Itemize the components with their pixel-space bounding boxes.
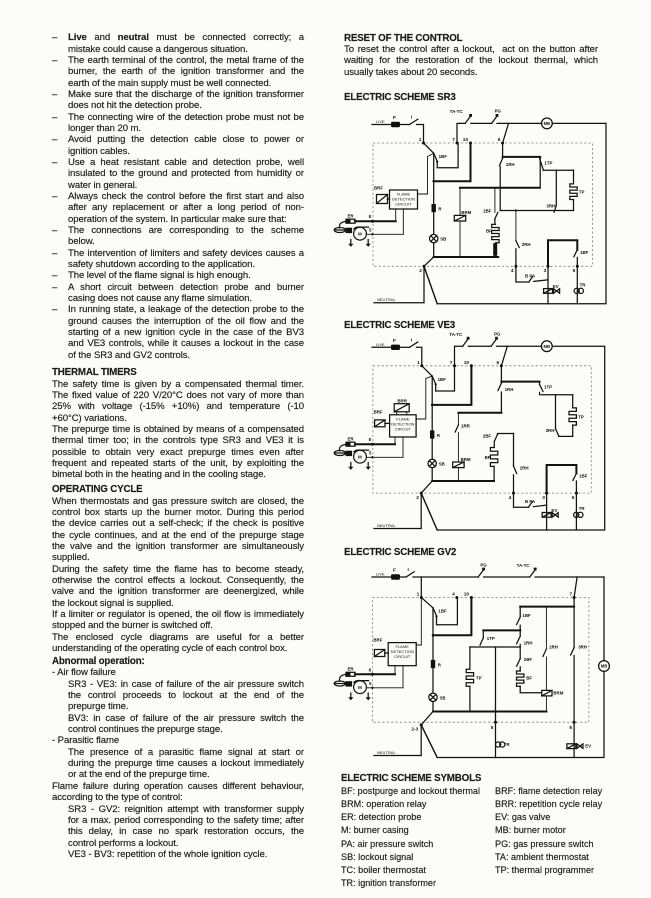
- svg-text:4: 4: [452, 592, 455, 598]
- svg-text:I: I: [408, 567, 410, 573]
- svg-text:2BF: 2BF: [483, 434, 492, 439]
- svg-text:BRM: BRM: [553, 691, 563, 696]
- svg-text:F: F: [393, 115, 396, 121]
- svg-text:6: 6: [498, 137, 501, 143]
- svg-text:TR: TR: [579, 506, 586, 511]
- svg-text:TA-TC: TA-TC: [449, 332, 463, 337]
- svg-text:1TP: 1TP: [544, 160, 552, 165]
- svg-text:3RH: 3RH: [578, 645, 587, 650]
- svg-text:BRR: BRR: [397, 399, 407, 404]
- svg-text:SB: SB: [440, 695, 446, 700]
- svg-text:1RR: 1RR: [461, 424, 471, 429]
- svg-text:TP: TP: [579, 190, 585, 195]
- svg-text:7: 7: [452, 137, 455, 143]
- svg-text:BRF: BRF: [374, 186, 383, 191]
- svg-text:1BF: 1BF: [580, 250, 589, 255]
- svg-text:ER: ER: [348, 213, 355, 218]
- svg-text:PG: PG: [495, 109, 502, 114]
- svg-text:6: 6: [497, 360, 500, 366]
- svg-text:2RH: 2RH: [522, 242, 531, 247]
- svg-text:1: 1: [417, 592, 420, 598]
- svg-text:R: R: [438, 662, 442, 667]
- svg-text:4: 4: [509, 495, 512, 501]
- svg-text:8: 8: [369, 437, 372, 442]
- svg-text:1BF: 1BF: [439, 154, 448, 159]
- svg-text:8: 8: [369, 667, 372, 672]
- svg-text:2-3: 2-3: [411, 727, 418, 733]
- svg-text:I: I: [411, 115, 413, 121]
- svg-text:M: M: [358, 232, 362, 237]
- svg-text:M: M: [358, 455, 362, 460]
- svg-text:F: F: [393, 338, 396, 344]
- svg-text:8: 8: [369, 214, 372, 219]
- svg-text:TR: TR: [580, 282, 587, 287]
- svg-text:LIVE: LIVE: [376, 342, 385, 347]
- svg-text:1BF: 1BF: [438, 609, 447, 614]
- svg-text:2RH: 2RH: [520, 465, 529, 470]
- svg-text:BF: BF: [485, 455, 491, 460]
- svg-text:B PA: B PA: [525, 499, 536, 504]
- svg-text:CIRCUIT: CIRCUIT: [394, 654, 411, 659]
- svg-text:5: 5: [369, 451, 372, 456]
- svg-text:3: 3: [544, 268, 547, 274]
- svg-text:TA-TC: TA-TC: [450, 109, 464, 114]
- svg-text:BRM: BRM: [461, 210, 471, 215]
- svg-text:7: 7: [569, 592, 572, 598]
- svg-text:10: 10: [464, 360, 470, 366]
- svg-text:NEUTRAL: NEUTRAL: [377, 523, 396, 528]
- svg-text:EV: EV: [551, 508, 557, 513]
- svg-text:EV: EV: [553, 284, 559, 289]
- svg-text:10: 10: [463, 137, 469, 143]
- svg-text:TA-TC: TA-TC: [517, 563, 531, 568]
- svg-text:LIVE: LIVE: [376, 119, 385, 124]
- svg-text:5: 5: [369, 228, 372, 233]
- svg-text:7: 7: [450, 360, 453, 366]
- svg-text:CIRCUIT: CIRCUIT: [395, 426, 412, 431]
- svg-text:LIVE: LIVE: [376, 572, 385, 577]
- svg-text:TP: TP: [476, 676, 482, 681]
- svg-text:R: R: [437, 433, 441, 438]
- svg-text:3: 3: [542, 495, 545, 501]
- svg-text:5: 5: [369, 681, 372, 686]
- svg-text:I: I: [411, 337, 413, 343]
- svg-text:MB: MB: [544, 121, 551, 126]
- svg-text:5: 5: [573, 268, 576, 274]
- svg-text:CIRCUIT: CIRCUIT: [395, 202, 412, 207]
- svg-text:BF: BF: [486, 228, 492, 233]
- svg-text:1TP: 1TP: [487, 636, 495, 641]
- svg-text:NEUTRAL: NEUTRAL: [377, 750, 396, 755]
- svg-text:1RH: 1RH: [506, 162, 515, 167]
- svg-text:2RH: 2RH: [549, 645, 558, 650]
- svg-text:6: 6: [569, 725, 572, 731]
- svg-text:MB: MB: [544, 344, 551, 349]
- svg-text:BRM: BRM: [461, 457, 471, 462]
- svg-text:4: 4: [511, 268, 514, 274]
- svg-text:M: M: [358, 685, 362, 690]
- svg-text:2BF: 2BF: [483, 208, 492, 213]
- svg-text:1RH: 1RH: [505, 387, 514, 392]
- svg-text:1RH: 1RH: [524, 640, 533, 645]
- svg-text:TP: TP: [578, 414, 584, 419]
- svg-text:1BF: 1BF: [522, 613, 531, 618]
- svg-text:1BF: 1BF: [579, 474, 588, 479]
- svg-text:PG: PG: [480, 563, 487, 568]
- svg-text:3RH: 3RH: [546, 428, 555, 433]
- svg-text:MB: MB: [601, 664, 608, 669]
- svg-text:1: 1: [417, 360, 420, 366]
- svg-text:PG: PG: [494, 331, 501, 336]
- svg-text:5: 5: [491, 725, 494, 731]
- svg-text:1TP: 1TP: [544, 385, 552, 390]
- svg-text:ER: ER: [348, 667, 355, 672]
- svg-text:BF: BF: [526, 676, 532, 681]
- svg-text:1: 1: [419, 137, 422, 143]
- svg-text:F: F: [393, 568, 396, 574]
- svg-text:SB: SB: [440, 237, 446, 242]
- svg-text:3RH: 3RH: [546, 203, 555, 208]
- svg-text:2BF: 2BF: [524, 657, 533, 662]
- svg-text:10: 10: [464, 592, 470, 598]
- svg-text:R: R: [438, 206, 442, 211]
- svg-text:B PA: B PA: [525, 273, 536, 278]
- svg-text:2: 2: [419, 268, 422, 274]
- svg-text:5: 5: [572, 495, 575, 501]
- svg-text:TR: TR: [504, 742, 511, 747]
- svg-text:BRF: BRF: [374, 410, 383, 415]
- svg-text:EV: EV: [585, 743, 591, 748]
- svg-text:SB: SB: [439, 462, 445, 467]
- svg-text:1BF: 1BF: [438, 377, 447, 382]
- svg-text:NEUTRAL: NEUTRAL: [377, 297, 396, 302]
- svg-text:BRF: BRF: [373, 637, 382, 642]
- svg-text:ER: ER: [348, 436, 355, 441]
- svg-text:2: 2: [416, 495, 419, 501]
